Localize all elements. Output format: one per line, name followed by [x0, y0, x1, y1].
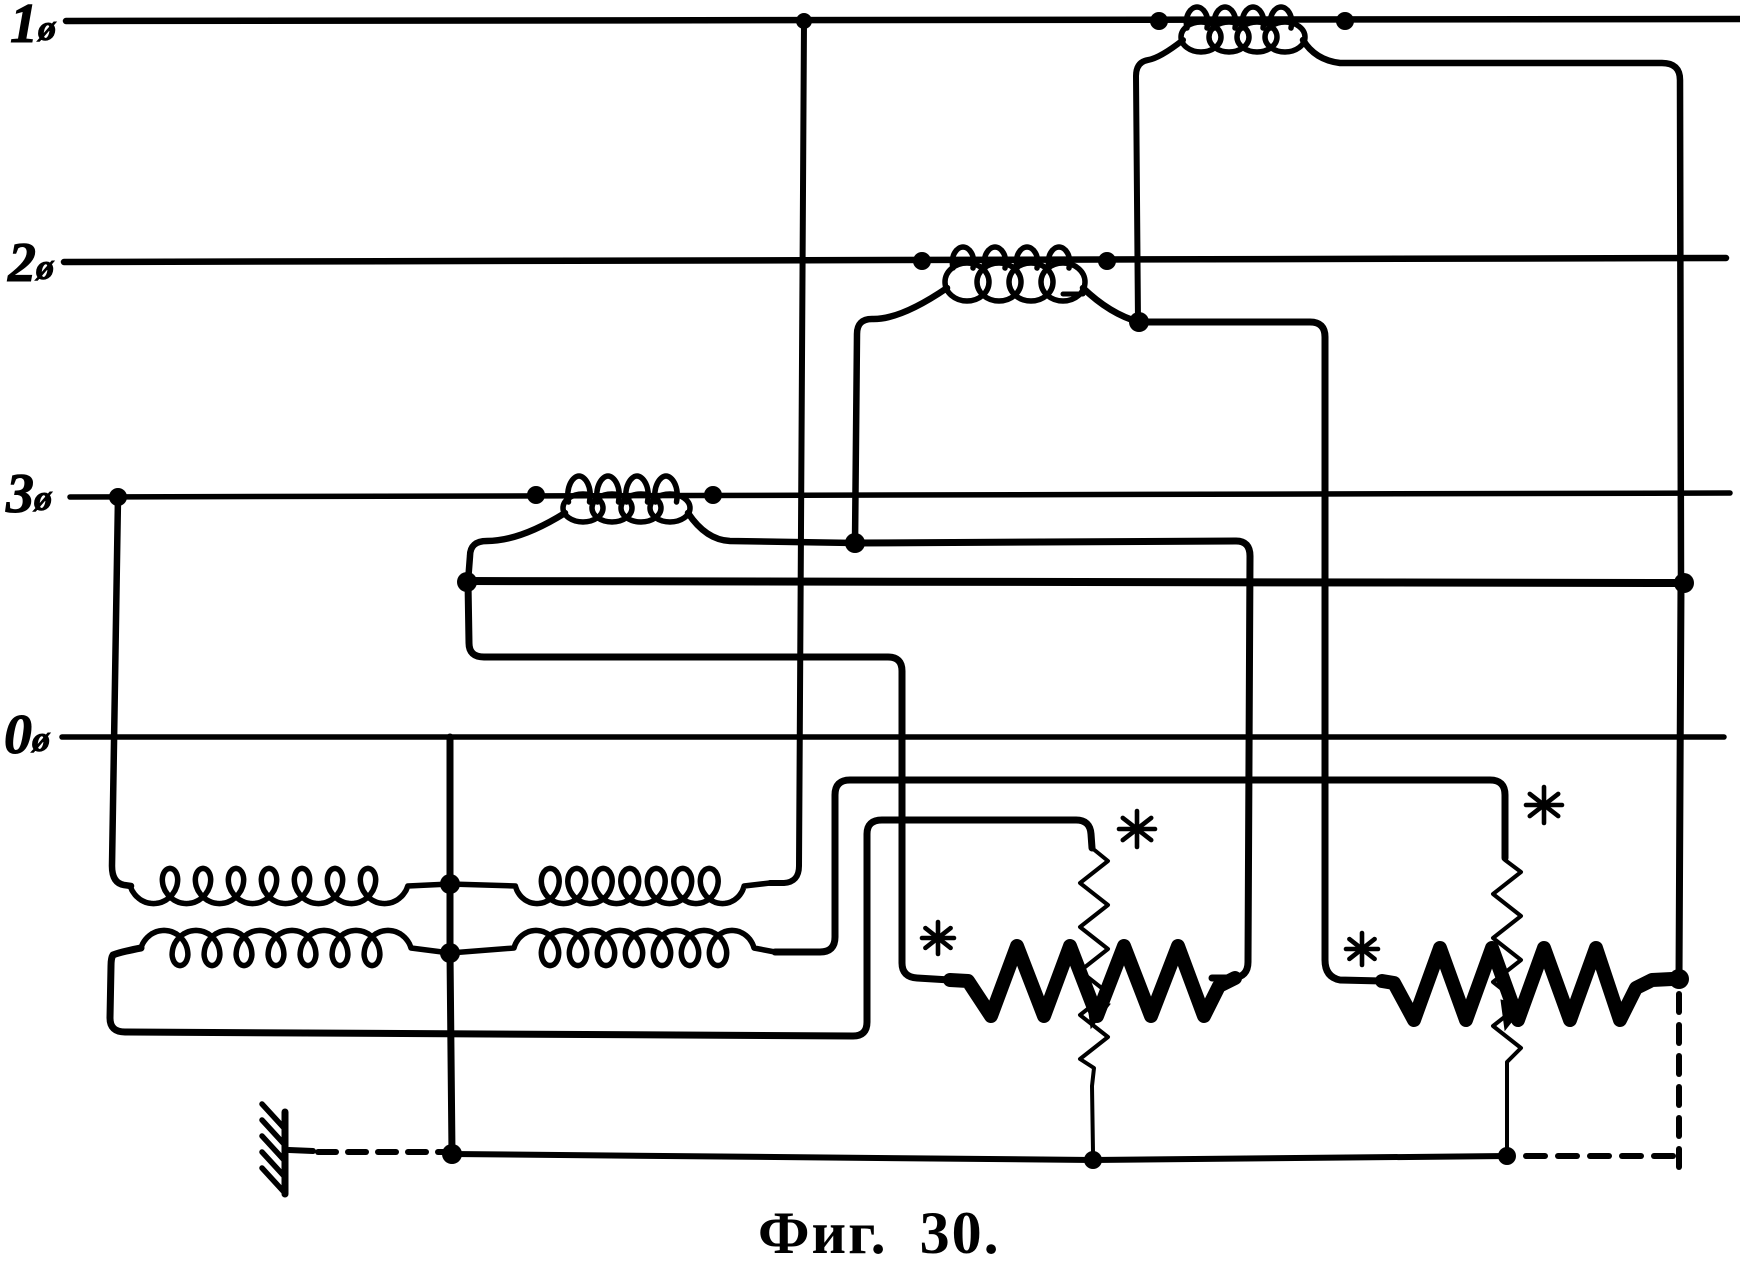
wire: neutral tap column down to earth line: [450, 737, 452, 1154]
winding W2 (upper-right coil): [450, 868, 770, 903]
bus line 3 (phase 3): [70, 493, 1730, 497]
polarity dash at L2: [1063, 292, 1083, 297]
wire: right column node D to R2 right terminal: [1679, 583, 1681, 979]
node dot phase3 tap: [109, 488, 127, 506]
wire: L3 right tail to node B: [688, 513, 855, 543]
node dot earth right: [1498, 1147, 1516, 1165]
wire: W2 right end up to phase 1: [770, 21, 804, 883]
node dot phase1 tap: [796, 13, 812, 29]
wire: L2 right tail to node J1: [1083, 288, 1139, 322]
wire: phase3 tap down to winding W1: [112, 497, 131, 886]
wire: L1 left tail down to node J1: [1136, 40, 1183, 322]
earth bus solid wire: [452, 1154, 1507, 1160]
node dot L3 right: [704, 486, 722, 504]
wire: W4 right end up and over to R2 wiper feed: [775, 780, 1505, 952]
ground symbol: [282, 1112, 289, 1194]
asterisk at R1 wiper: [1135, 811, 1140, 847]
wire: L1 right tail over and down right edge: [1303, 40, 1681, 583]
bus line 0 (neutral): [62, 734, 1724, 740]
R2 wiper resistance wire (thin zigzag): [1493, 860, 1521, 1152]
node dot earth left: [442, 1144, 462, 1164]
wire: J1 right and down to rheostat R2 left terminal: [1139, 322, 1382, 981]
R1 wiper arrow: [1087, 998, 1110, 1028]
R2 wiper arrow: [1501, 1000, 1524, 1030]
wire: L3 left tail down to node C: [468, 513, 565, 582]
wire: node B right and down to rheostat R1 right terminal: [855, 541, 1250, 978]
node dot L1 left: [1150, 12, 1168, 30]
node dot L1 right: [1336, 12, 1354, 30]
wire: node C down, right, down to rheostat R1 left terminal: [468, 582, 950, 980]
inductor L2 on phase 2: [952, 247, 973, 268]
R1 wiper resistance wire (thin zigzag): [1080, 848, 1108, 1152]
svg-text:Фиг. 30.: Фиг. 30.: [758, 1200, 1001, 1256]
node N2 dot: [440, 943, 460, 963]
wire: W3 left end down and long run to R1 wiper feed: [110, 820, 1092, 1036]
bus line 2 (phase 2): [64, 258, 1726, 262]
node dot L2 right: [1098, 252, 1116, 270]
asterisk at R2 body: [1360, 933, 1365, 965]
dashed earth wire right column: [1676, 994, 1682, 1012]
node D dot: [1674, 573, 1694, 593]
rheostat R1 body: [950, 946, 1235, 1016]
node dot L2 left: [913, 252, 931, 270]
node dot earth middle: [1084, 1151, 1102, 1169]
node B dot: [845, 533, 865, 553]
wire: L2 left tail down to node B: [855, 288, 947, 543]
inductor L1 on phase 1: [1186, 7, 1207, 28]
asterisk at R2 wiper: [1542, 787, 1547, 823]
node J1 dot: [1129, 312, 1149, 332]
svg-text:1ø: 1ø: [10, 0, 57, 55]
winding W1 (upper-left coil): [130, 868, 450, 903]
winding W4 (lower-right coil): [450, 930, 775, 965]
winding W3 (lower-left coil): [141, 930, 450, 965]
node C dot: [457, 572, 477, 592]
inductor L3 on phase 3: [568, 476, 590, 502]
dashed earth wire left section: [318, 1149, 336, 1155]
node dot L3 left: [527, 486, 545, 504]
node dot R2 right terminal: [1669, 969, 1689, 989]
rheostat R2 body: [1382, 948, 1672, 1020]
bus line 1 (phase 1): [66, 19, 1740, 21]
asterisk at R1 body: [936, 922, 941, 954]
node N1 dot: [440, 874, 460, 894]
tie wire node C to node D: [467, 581, 1684, 583]
dashed earth wire right section: [1526, 1153, 1545, 1159]
